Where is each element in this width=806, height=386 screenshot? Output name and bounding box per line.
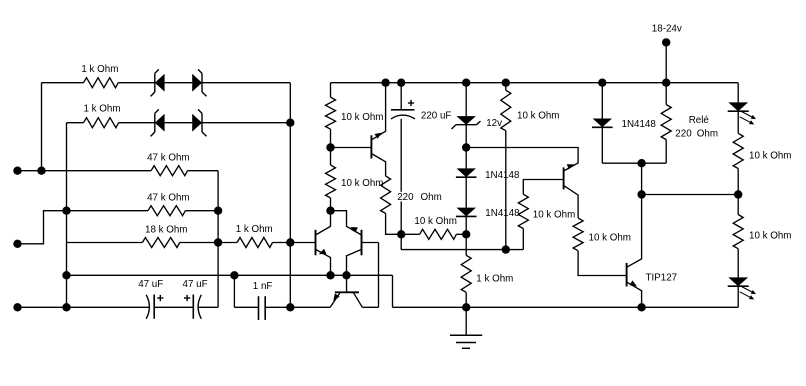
wire — [165, 82, 193, 84]
wire — [602, 162, 666, 164]
svg-text:10 k Ohm: 10 k Ohm — [749, 150, 791, 161]
node junction H — [230, 271, 238, 279]
transistor U1 TIP127 — [626, 263, 628, 287]
label supply voltage — [652, 24, 682, 35]
wire — [198, 306, 218, 308]
arrow Q2 emitter — [350, 227, 358, 233]
wire — [378, 243, 380, 308]
svg-text:10 k Ohm: 10 k Ohm — [414, 216, 456, 227]
wire — [273, 242, 291, 244]
wire — [737, 111, 739, 133]
node junction P — [397, 230, 405, 238]
wire — [665, 83, 667, 105]
label relay name — [689, 115, 710, 126]
wire Q3 base — [331, 147, 372, 149]
svg-text:TIP127: TIP127 — [646, 273, 678, 284]
arrow Q5 emitter — [333, 293, 339, 300]
svg-text:47 uF: 47 uF — [138, 279, 163, 290]
wire — [289, 83, 291, 308]
wire — [234, 306, 258, 308]
arrow Q1 emitter — [319, 249, 327, 255]
wire — [737, 83, 739, 103]
node junction F — [62, 303, 70, 311]
wire Q5 collector — [353, 292, 362, 307]
svg-text:1N4148: 1N4148 — [485, 170, 520, 181]
wire TIP127 collector — [627, 163, 642, 267]
label R5 value — [145, 224, 187, 235]
label D5 value — [486, 118, 502, 129]
label R3 value — [147, 152, 189, 163]
label C3 value — [253, 281, 273, 292]
node input terminal 3 — [13, 303, 21, 311]
label R6 value — [236, 224, 273, 235]
node junction V — [502, 79, 510, 87]
label U1 name — [646, 273, 678, 284]
svg-text:1 k Ohm: 1 k Ohm — [236, 224, 273, 235]
node junction A — [37, 167, 45, 175]
label R9 value part2 — [421, 192, 442, 203]
node junction E — [286, 238, 294, 246]
wire — [67, 274, 393, 276]
svg-text:10 k Ohm: 10 k Ohm — [749, 230, 791, 241]
resistor R3 47k — [151, 166, 187, 176]
wire — [185, 210, 218, 212]
wire — [217, 171, 219, 308]
resistor R16 10k — [733, 133, 743, 168]
resistor R4 47k — [148, 206, 185, 216]
node junction I — [286, 303, 294, 311]
node supply terminal — [662, 38, 670, 46]
label D8 value — [622, 119, 657, 130]
resistor R7 10k — [326, 97, 336, 129]
wire — [393, 306, 739, 308]
wire — [465, 216, 467, 255]
resistor R8 10k — [326, 165, 336, 198]
resistor R14 10k — [573, 218, 583, 251]
wire — [218, 242, 237, 244]
arrow TIP127 emitter — [630, 280, 637, 286]
zener D5 12v — [452, 116, 481, 129]
arrow Q4 emitter — [567, 164, 575, 169]
wire — [465, 292, 467, 307]
wire — [737, 249, 739, 278]
zener D1 (row1 left) — [151, 69, 165, 96]
wire TIP127 emitter — [627, 282, 642, 307]
wire — [465, 307, 467, 335]
diode D6 1N4148 — [456, 168, 477, 177]
wire Q5 emitter — [330, 292, 340, 307]
wire — [601, 127, 603, 163]
label R2 value — [84, 104, 121, 115]
svg-text:220 uF: 220 uF — [421, 110, 452, 121]
node junction AA — [662, 79, 670, 87]
wire — [330, 198, 332, 211]
label R4 value — [147, 193, 189, 204]
wire — [41, 83, 43, 171]
ground — [450, 335, 482, 348]
zener D4 (row2 right) — [192, 109, 206, 136]
resistor R10 10k — [420, 229, 457, 239]
node junction L — [342, 271, 350, 279]
node junction Y — [637, 159, 645, 167]
wire — [456, 233, 466, 235]
node junction W — [637, 303, 645, 311]
node junction O — [397, 79, 405, 87]
label R11 value — [476, 274, 513, 285]
wire — [401, 249, 523, 251]
wire — [265, 306, 330, 308]
wire Q4 collector — [564, 185, 579, 218]
label R15 value part2 — [697, 128, 718, 139]
wire — [505, 131, 507, 250]
node junction D — [214, 238, 222, 246]
wire — [522, 229, 524, 250]
label C1 plus — [157, 295, 163, 301]
wire — [233, 275, 235, 307]
wire — [42, 82, 84, 84]
wire — [165, 122, 193, 124]
node junction S — [462, 79, 470, 87]
label R10 value — [414, 216, 456, 227]
node junction K — [326, 271, 334, 279]
wire Q3 emitter — [371, 83, 385, 140]
wire — [465, 177, 467, 207]
node junction N — [381, 79, 389, 87]
transistor Q5 — [335, 291, 359, 293]
wire — [578, 251, 627, 276]
wire — [330, 129, 332, 165]
transistor Q3 — [370, 135, 372, 158]
label D6 value — [485, 170, 520, 181]
wire — [400, 119, 402, 250]
node junction G — [62, 271, 70, 279]
resistor R12 10k — [501, 90, 511, 130]
label R8 value — [341, 178, 383, 189]
svg-text:47 k Ohm: 47 k Ohm — [147, 152, 189, 163]
svg-text:1 k Ohm: 1 k Ohm — [476, 274, 513, 285]
wire — [180, 242, 218, 244]
svg-text:1N4148: 1N4148 — [485, 208, 520, 219]
arrow Q3 emitter — [375, 133, 383, 139]
label C4 plus — [408, 100, 414, 106]
label C2 plus — [184, 295, 190, 301]
svg-text:10 k Ohm: 10 k Ohm — [533, 210, 575, 221]
capacitor C1 47uF — [146, 295, 154, 319]
node junction AB — [734, 190, 742, 198]
svg-text:220: 220 — [675, 128, 692, 139]
wire — [392, 275, 394, 307]
capacitor C4 220uF — [391, 110, 415, 119]
svg-text:1 k Ohm: 1 k Ohm — [81, 64, 118, 75]
transistor Q1 — [315, 230, 317, 256]
wire — [642, 194, 739, 196]
wire — [330, 83, 332, 97]
node junction X — [598, 79, 606, 87]
svg-text:1N4148: 1N4148 — [622, 119, 657, 130]
label R9 value part1 — [396, 192, 436, 203]
wire — [362, 306, 378, 308]
diode D7 1N4148 — [456, 208, 477, 217]
wire — [67, 210, 149, 212]
label R12 value — [517, 111, 559, 122]
zener D3 (row2 left) — [151, 109, 165, 136]
wire supply rail — [331, 82, 739, 84]
svg-text:1 k Ohm: 1 k Ohm — [84, 104, 121, 115]
node input terminal 1 — [13, 167, 21, 175]
svg-text:Ohm: Ohm — [697, 128, 718, 139]
svg-text:10 k Ohm: 10 k Ohm — [517, 111, 559, 122]
wire — [188, 170, 219, 172]
wire — [154, 306, 193, 308]
node junction C — [214, 207, 222, 215]
wire — [67, 242, 143, 244]
svg-text:10 k Ohm: 10 k Ohm — [589, 233, 631, 244]
capacitor C2 47uF — [193, 295, 201, 319]
node junction U — [462, 303, 470, 311]
svg-text:10 k Ohm: 10 k Ohm — [341, 178, 383, 189]
svg-text:Relé: Relé — [689, 115, 710, 126]
LED D9 — [728, 102, 749, 111]
svg-text:12v: 12v — [486, 118, 502, 129]
diode D8 1N4148 — [592, 119, 613, 128]
resistor R17 10k — [733, 215, 743, 249]
wire — [18, 211, 67, 244]
node junction M — [326, 143, 334, 151]
node row2 junction — [286, 119, 294, 127]
wire Q1 collector — [316, 211, 331, 235]
svg-text:18 k Ohm: 18 k Ohm — [145, 224, 187, 235]
label R14 value — [589, 233, 631, 244]
label C1 value — [138, 279, 163, 290]
node junction J — [326, 207, 334, 215]
LED D9 arrows — [740, 112, 756, 125]
wire — [386, 213, 402, 234]
label R13 value — [533, 210, 575, 221]
wire Q3 collector — [371, 154, 385, 177]
wire — [505, 83, 507, 91]
resistor R13 10k — [518, 194, 528, 228]
wire — [202, 122, 290, 124]
label R15 value part1 — [675, 128, 692, 139]
capacitor C3 1nF — [259, 296, 266, 320]
svg-text:47 k Ohm: 47 k Ohm — [147, 193, 189, 204]
resistor R9 220 — [381, 176, 391, 213]
label R7 value — [341, 112, 383, 123]
label D7 value — [485, 208, 520, 219]
resistor R2 1k (row2) — [84, 118, 119, 128]
wire — [465, 125, 467, 169]
resistor R5 18k — [142, 238, 179, 248]
wire Q1 emitter — [316, 249, 331, 275]
node junction R — [502, 245, 510, 253]
wire — [665, 140, 667, 164]
node junction Q — [462, 230, 470, 238]
wire — [601, 83, 603, 119]
wire Q2 collector — [347, 249, 362, 275]
resistor R6 1k — [237, 238, 273, 248]
resistor R11 1k — [461, 255, 471, 292]
wire — [665, 42, 667, 82]
wire — [465, 83, 467, 117]
resistor R1 1k (row1) — [84, 78, 119, 88]
transistor Q4 — [563, 167, 565, 189]
wire — [737, 286, 739, 307]
label R1 value — [81, 64, 118, 75]
node junction B — [62, 207, 70, 215]
node junction T — [462, 143, 470, 151]
wire — [401, 233, 419, 235]
transistor Q2 — [361, 230, 363, 256]
resistor R15 220 (relay) — [661, 105, 671, 140]
svg-text:18-24v: 18-24v — [652, 24, 682, 35]
wire — [523, 180, 563, 195]
LED D10 arrows — [740, 287, 756, 300]
wire — [290, 242, 315, 244]
LED D10 — [728, 277, 749, 286]
wire Q5 base — [346, 275, 348, 292]
svg-text:47 uF: 47 uF — [183, 279, 208, 290]
svg-text:Ohm: Ohm — [421, 192, 442, 203]
wire — [119, 122, 155, 124]
node junction Z — [637, 190, 645, 198]
wire Q2 emitter — [331, 211, 362, 235]
wire Q4 emitter — [466, 148, 578, 172]
wire — [400, 83, 402, 110]
svg-text:220: 220 — [397, 192, 414, 203]
svg-text:10 k Ohm: 10 k Ohm — [341, 112, 383, 123]
wire — [18, 306, 151, 308]
wire — [202, 82, 290, 84]
wire Q2 base — [362, 242, 379, 244]
wire — [66, 123, 68, 308]
node input terminal 2 — [13, 240, 21, 248]
wire — [67, 122, 84, 124]
label C4 value — [421, 110, 452, 121]
label R16 value — [749, 150, 791, 161]
zener D2 (row1 right) — [192, 69, 206, 96]
wire — [118, 82, 155, 84]
label C2 value — [183, 279, 208, 290]
wire — [737, 169, 739, 215]
svg-text:1 nF: 1 nF — [253, 281, 273, 292]
wire — [18, 170, 152, 172]
label R17 value — [749, 230, 791, 241]
